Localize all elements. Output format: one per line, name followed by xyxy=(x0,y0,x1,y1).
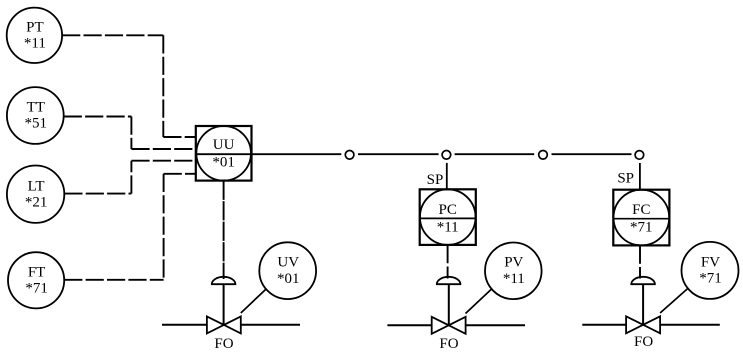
signal wire UU to valve UV actuator xyxy=(223,181,225,279)
svg-text:FV: FV xyxy=(701,254,720,270)
node junction 2 xyxy=(442,151,451,160)
node junction 3 xyxy=(539,151,548,160)
valve stem 3 xyxy=(642,284,644,325)
svg-text:UU: UU xyxy=(213,137,235,153)
signal wire FT to UU xyxy=(64,174,195,280)
svg-text:*51: *51 xyxy=(25,116,48,132)
tap line valve 1 to UV xyxy=(241,289,266,313)
pipe 2 xyxy=(387,324,525,326)
tap line valve 2 to PV xyxy=(466,289,492,313)
signal wire FC to valve FV actuator xyxy=(639,245,641,278)
svg-text:*21: *21 xyxy=(25,194,48,210)
svg-text:*01: *01 xyxy=(212,154,235,170)
wire main line segment 3 xyxy=(455,153,535,155)
valve stem 1 xyxy=(223,284,225,325)
bubble UV *01 xyxy=(259,242,316,299)
svg-text:*71: *71 xyxy=(25,280,48,296)
instrument bubble LT *21 xyxy=(7,166,64,223)
svg-text:FT: FT xyxy=(28,265,46,281)
instrument bubble PT *11 xyxy=(7,8,62,63)
control valve 2 body xyxy=(432,317,466,334)
control valve 3 body xyxy=(626,316,660,333)
shared controller UU *01 xyxy=(196,126,252,181)
valve stem 2 xyxy=(448,284,450,325)
signal wire PC to valve PV actuator xyxy=(447,245,449,279)
svg-text:*11: *11 xyxy=(24,35,46,51)
wire main line segment 4 xyxy=(552,153,632,155)
svg-text:FO: FO xyxy=(634,334,653,350)
actuator diaphragm valve 2 xyxy=(437,277,461,284)
actuator diaphragm valve 3 xyxy=(631,277,655,284)
svg-text:FO: FO xyxy=(439,336,458,352)
svg-text:PC: PC xyxy=(439,202,457,218)
controller FC *71 xyxy=(613,190,669,246)
controller PC *11 xyxy=(420,189,476,245)
instrument bubble TT *51 xyxy=(7,87,64,144)
node junction 1 xyxy=(345,151,354,160)
svg-text:*01: *01 xyxy=(277,271,300,287)
wire main line segment 2 xyxy=(358,153,439,155)
signal wire LT to UU xyxy=(64,161,195,194)
svg-text:UV: UV xyxy=(277,255,299,271)
tap line valve 3 to FV xyxy=(660,288,688,313)
svg-text:SP: SP xyxy=(617,171,634,187)
wire node 4 to FC xyxy=(639,163,641,190)
svg-text:*71: *71 xyxy=(630,220,653,236)
svg-text:LT: LT xyxy=(28,178,45,194)
bubble PV *11 xyxy=(485,242,542,299)
svg-text:FC: FC xyxy=(632,202,650,218)
svg-text:*71: *71 xyxy=(699,271,722,287)
node junction 4 xyxy=(635,151,644,160)
instrument bubble FT *71 xyxy=(8,252,64,308)
svg-text:PV: PV xyxy=(504,255,523,271)
svg-text:*11: *11 xyxy=(437,219,459,235)
bubble FV *71 xyxy=(682,242,739,299)
svg-text:PT: PT xyxy=(26,20,44,36)
svg-text:*11: *11 xyxy=(503,271,525,287)
signal wire TT to UU xyxy=(64,117,195,150)
wire UU output main line segment 1 xyxy=(196,153,341,155)
wire node 2 to PC xyxy=(446,163,448,190)
pipe 3 xyxy=(582,324,720,326)
svg-text:SP: SP xyxy=(427,172,444,188)
svg-text:FO: FO xyxy=(214,336,233,352)
svg-text:TT: TT xyxy=(27,100,45,116)
signal wire PT to UU xyxy=(62,35,195,137)
control valve 1 body xyxy=(207,316,241,333)
actuator diaphragm valve 1 xyxy=(212,277,236,284)
pipe 1 xyxy=(162,324,300,326)
